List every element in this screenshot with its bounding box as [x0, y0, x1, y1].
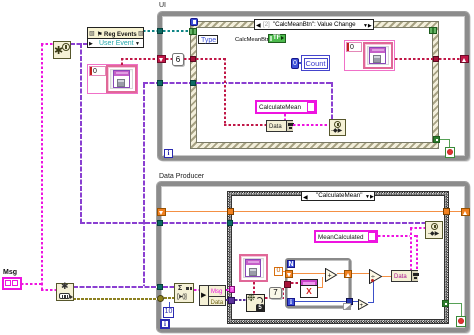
cluster constant 2 (0 + object)	[344, 40, 395, 71]
case selector terminal	[229, 286, 235, 293]
junction orange on case left border	[227, 208, 234, 215]
wire blue tunnel to increment	[353, 301, 359, 302]
wire magenta bundle up to Generate User Event 2	[410, 228, 412, 270]
wire purple into event structure y83	[143, 82, 158, 84]
bundle node Data (event)	[266, 120, 293, 132]
wire purple inside UI to event border	[163, 82, 191, 84]
divide node	[369, 269, 383, 284]
wire magenta jog to dequeue node	[41, 283, 43, 291]
wire green to stop	[440, 139, 450, 140]
string constant MeanCalculated	[314, 230, 378, 243]
tunnel purple on DP border	[157, 220, 163, 226]
inner loop right shift register (orange)	[344, 270, 352, 278]
wire blue i to tunnel	[295, 301, 347, 302]
left shift register DP (orange)	[157, 208, 166, 216]
green tunnel on event right border	[433, 136, 440, 143]
class object constant in cluster 2	[363, 42, 393, 69]
wire blue 10 to node	[169, 302, 170, 307]
indicator Count	[301, 55, 330, 71]
tunnel variant on case border	[228, 297, 235, 304]
label UI	[159, 2, 166, 10]
right shift register UI	[460, 55, 469, 63]
add node	[325, 268, 338, 282]
wire crimson 7 stub	[274, 295, 276, 299]
wire magenta riser x42	[41, 44, 43, 285]
inner loop left shift register (orange)	[285, 270, 293, 278]
generate user event node 2	[425, 221, 443, 239]
event timeout terminal	[190, 18, 198, 26]
wire purple into Data Producer loop y223	[80, 222, 158, 224]
wire magenta to Create User Event	[41, 43, 55, 45]
iteration terminal DP loop	[160, 319, 170, 329]
wire to Count	[299, 63, 301, 64]
wire purple riser x81	[80, 43, 82, 224]
left shift register UI	[157, 55, 166, 63]
coercion dot	[371, 279, 374, 282]
wire orange add to shift register	[337, 273, 344, 274]
wire green to stop DP	[449, 303, 462, 304]
wire class crimson from cluster1 up and right	[121, 58, 123, 65]
string constant CalculateMean	[255, 100, 317, 114]
wire purple to sum node	[163, 286, 175, 288]
variant-to-data gear node	[246, 294, 265, 312]
for loop count terminal N	[287, 260, 295, 268]
iteration terminal UI loop	[164, 149, 173, 158]
wire dequeue purple output y287	[73, 286, 158, 288]
constant 10	[163, 307, 174, 318]
wire olive to sum node	[164, 297, 175, 299]
Msg queue terminal	[2, 277, 22, 290]
subVI Parent X	[300, 279, 318, 298]
wire user event purple: create node to Reg Events	[70, 43, 88, 45]
wire variant to gear node	[235, 299, 247, 301]
iteration terminal inner loop	[287, 298, 295, 306]
inner for loop	[285, 258, 351, 308]
dynamic event terminal right	[429, 27, 437, 34]
boolean terminal CalcMeanBtn TF	[268, 34, 286, 43]
wire X output to add	[322, 277, 323, 288]
wire purple riser x144	[143, 83, 145, 287]
wire crimson object down to gear node	[253, 282, 255, 295]
wire variant Data to tunnel	[226, 299, 231, 301]
numeric constant 6	[172, 53, 184, 66]
class object constant in cluster 1	[106, 65, 137, 93]
label CalcMeanBtn	[235, 36, 270, 44]
right shift register DP (orange)	[461, 208, 470, 216]
wire magenta node1 to unbundle	[194, 289, 200, 291]
generate user event node (event case)	[329, 119, 346, 136]
wire event reg teal: Reg Events to UI loop	[143, 30, 159, 32]
class object constant (Data Producer)	[239, 254, 268, 282]
wire magenta Data to Generate User Event	[293, 124, 329, 126]
while loop Data Producer	[157, 182, 469, 332]
constant 0 (orange)	[274, 267, 283, 276]
unbundle node Msg/Data	[199, 285, 226, 306]
wire orange shift reg to divide	[352, 273, 370, 274]
wire crimson 6 to event border	[184, 58, 192, 60]
tunnel teal on UI border	[157, 28, 163, 34]
tunnel purple on UI border	[157, 80, 163, 86]
wire orange divide to bundle	[382, 276, 391, 277]
stop terminal DP loop	[456, 316, 466, 327]
bundle node Data (producer)	[391, 270, 418, 282]
wire crimson to right shift register	[439, 58, 461, 60]
constant 7	[269, 287, 282, 299]
label Data Producer	[159, 173, 204, 181]
svg-text:+: +	[328, 273, 332, 280]
wire crimson inside event structure	[196, 58, 226, 60]
event selector label	[254, 19, 374, 30]
junction orange on case right border	[443, 208, 450, 215]
label Msg	[3, 269, 17, 277]
tunnel olive on DP border y299	[157, 295, 164, 302]
cluster constant 1 (0 + object)	[87, 64, 138, 94]
svg-text:+: +	[360, 303, 364, 309]
junction crimson on event border	[190, 56, 196, 62]
case selector label	[301, 191, 375, 201]
message wait node	[174, 283, 194, 303]
green tunnel on case right border	[442, 300, 449, 307]
wire crimson to 6	[166, 58, 173, 60]
wire orange across case	[234, 211, 444, 212]
while loop UI	[158, 12, 469, 160]
wire purple across case to Generate User Event 2	[233, 222, 426, 224]
wire orange inside inner loop	[293, 273, 326, 274]
wire orange to case border	[166, 211, 228, 212]
tunnel purple on case border	[227, 220, 233, 226]
stop terminal UI loop	[445, 147, 455, 158]
dynamic event terminal left	[189, 28, 197, 35]
dequeue element node	[56, 283, 74, 301]
junction crimson on event right border	[433, 56, 439, 62]
wire Msg queue magenta: terminal to vertical riser	[21, 283, 42, 285]
wire orange to right shift register	[450, 211, 462, 212]
tunnel purple on DP border y287	[157, 284, 163, 290]
wire crimson cluster2 to right border	[395, 58, 433, 60]
wire magenta CalculateMean down	[284, 114, 286, 121]
wire purple to case	[163, 222, 228, 224]
wire magenta MeanCalculated to bundle	[378, 235, 418, 237]
wire orange 0 to shift register	[283, 271, 286, 272]
increment node	[358, 297, 369, 308]
event structure border	[190, 21, 439, 149]
event data node Type	[198, 35, 218, 44]
increment terminal 0	[291, 58, 299, 69]
create user event node	[53, 41, 71, 59]
wire teal inside UI loop	[163, 30, 191, 32]
tunnel blue on inner loop border	[346, 298, 353, 305]
wire crimson gear to inner loop	[265, 297, 284, 299]
case structure border (Data Producer)	[227, 191, 449, 324]
wire blue increment to divide	[368, 302, 374, 303]
tunnel purple on event border	[190, 80, 196, 86]
wire dequeue variant olive output y299	[73, 298, 158, 300]
inner loop corner conditional	[343, 303, 351, 310]
crimson tunnel on inner loop border	[284, 281, 291, 288]
Reg Events node	[87, 27, 144, 48]
wire magenta Msg to case selector	[226, 289, 231, 291]
wire crimson tunnel to subVI	[291, 282, 301, 284]
wire purple inside event structure	[196, 82, 333, 84]
